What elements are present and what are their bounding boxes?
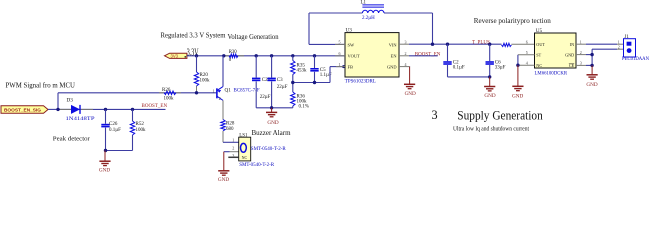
svg-text:SMT-0540-T-2-R: SMT-0540-T-2-R [251,147,287,152]
label C5 [320,68,326,73]
value 680 R28 [226,127,234,132]
title Regulated 3.3V System [161,30,226,39]
svg-text:6: 6 [339,51,341,56]
node junction C5 FB [313,81,316,84]
label R30 [229,50,238,55]
resistor R28 [221,120,225,143]
pin IN U5 [570,42,586,47]
wire C2 C6 bottom [448,76,490,78]
wire SW to inductor [309,13,362,44]
node junction CE gnd [590,64,593,67]
svg-text:PEC01DAAN: PEC01DAAN [622,57,650,62]
svg-text:GND: GND [387,65,397,70]
value 0.1uF C2 [453,65,465,70]
resistor R20 [194,56,198,93]
ground mid rail [266,108,279,126]
label L1 [361,1,367,6]
svg-text:R30: R30 [229,50,238,55]
pin number 3 U3 [405,40,407,45]
transistor Q1 [217,56,223,120]
resistor R30 [224,54,244,58]
svg-text:T_PLUS: T_PLUS [472,40,490,45]
label R26 [162,88,171,93]
svg-text:LS1: LS1 [239,133,248,138]
pin OUT U5 [536,42,545,47]
pin ST U5 [518,53,542,58]
wire base row [58,92,217,94]
pin number 2 U5 [580,50,582,55]
svg-text:ST: ST [536,53,541,58]
label R28 [226,121,235,126]
label C2 [453,60,459,65]
wire CE join [586,64,592,66]
wire gnd to J1 pin2 [592,48,625,50]
svg-text:EN: EN [391,54,398,59]
value 33uF C6 [495,65,506,70]
label R35 [297,63,306,68]
svg-text:BOOST_EN: BOOST_EN [142,104,168,109]
title Voltage Generation [228,32,279,41]
pin name NC LS1 [242,155,248,160]
wire U3 gnd drop [409,66,411,68]
svg-text:Buzzer Alarm: Buzzer Alarm [252,129,292,137]
pin number 1 LS1 [232,138,234,143]
node junction C25 top [255,54,258,57]
buzzer LS1 [228,137,250,161]
wire U5 out to J1 pin1 [586,43,624,45]
svg-text:1N4148TP: 1N4148TP [66,117,95,122]
svg-text:Q1: Q1 [225,88,232,94]
svg-text:GND: GND [267,120,278,126]
value 2.2uH L1 [362,16,375,21]
svg-text:2.2µH: 2.2µH [362,16,375,21]
svg-text:R20: R20 [200,73,209,78]
value 453k R35 [297,68,308,73]
node junction C6 bottom [488,75,491,78]
node junction base [195,91,198,94]
svg-text:Regulated 3.3 V System: Regulated 3.3 V System [161,30,226,39]
pin number 6 U5 [526,39,528,44]
resistor R36 [291,83,295,108]
svg-text:GND: GND [586,82,597,88]
svg-text:LM66100DCKR: LM66100DCKR [535,71,568,76]
pin number 4 U5 [526,60,528,65]
svg-text:0.1µF: 0.1µF [109,128,121,133]
svg-text:C3: C3 [277,78,283,83]
svg-text:3: 3 [232,153,234,158]
svg-text:1: 1 [232,138,234,143]
value SMT-0540-T-2-R right [251,147,287,152]
wire FB feedback [293,67,345,83]
svg-text:GND: GND [484,93,495,99]
svg-text:6: 6 [526,39,528,44]
pin VOUT U3 [335,54,360,59]
wire port to diode node [48,108,58,110]
pin number 4 U3 [405,62,407,67]
label C3 [277,78,283,83]
resistor R26 [159,91,181,95]
wire EN stub [409,55,438,57]
svg-text:Reverse polaritypro tection: Reverse polaritypro tection [474,17,551,25]
svg-text:NC: NC [536,63,542,68]
wire 3.3V rail [187,55,345,57]
value 100k R20 [200,78,211,83]
svg-text:OUT: OUT [536,42,545,47]
value 1N4148TP [66,117,95,122]
svg-text:GND: GND [512,94,523,100]
svg-text:3: 3 [580,61,582,66]
section number 3 [432,108,438,122]
svg-text:5: 5 [339,40,341,45]
node junction gnd mid [270,106,273,109]
svg-text:5: 5 [526,50,528,55]
svg-text:1: 1 [213,89,215,94]
title Reverse polarity protection [474,17,551,25]
label R36 [297,94,306,99]
pin EN U3 [391,54,409,59]
label LS1 [239,133,248,138]
svg-text:SMT-0540-T-2-R: SMT-0540-T-2-R [239,163,275,168]
node junction Q1 emitter rail [222,54,225,57]
node junction NC gnd [516,63,519,66]
label C6 [495,60,501,65]
svg-text:680: 680 [226,127,234,132]
svg-text:3: 3 [405,40,407,45]
pin number 3 LS1 [232,153,234,158]
svg-text:Supply Generation: Supply Generation [457,108,543,122]
node junction R35 top [291,54,294,57]
svg-text:IN: IN [570,42,574,47]
wire diode row [58,108,166,110]
svg-text:GND: GND [405,91,416,97]
node junction C5 top [313,54,316,57]
ground U5 left [512,65,524,99]
ground U3 [404,67,416,98]
node junction at riser [56,108,59,111]
resistor R52 [130,109,134,150]
pin CE U5 [569,63,586,68]
section title Supply Generation [457,108,543,122]
svg-text:VOUT: VOUT [348,54,361,59]
svg-text:33µF: 33µF [495,65,506,70]
wire U5 gnd net [586,49,592,65]
wire VIN to U5 [409,43,502,45]
svg-text:4: 4 [405,62,407,67]
svg-text:2: 2 [618,45,620,50]
wire inductor to VIN [384,13,433,44]
node junction R35 R36 FB [291,81,294,84]
pin GND U5 [565,53,586,58]
svg-text:22µF: 22µF [277,85,288,90]
value 100k R52 [136,128,147,133]
pin FB U3 [336,65,353,70]
wire buzzer pin2 to gnd [224,151,239,153]
svg-text:100k: 100k [200,78,211,83]
pin number 1 U5 [580,39,582,44]
svg-text:100k: 100k [164,96,175,101]
label C25 [262,78,271,83]
label D3 [67,98,74,104]
svg-text:U5: U5 [536,28,543,34]
diode D3 [60,105,93,114]
label R20 [200,73,209,78]
pin number 2 U3 [405,51,407,56]
capacitor C2 [443,44,451,77]
node junction FB pin [342,65,345,68]
label C26 [109,122,118,127]
svg-text:GND: GND [565,53,574,58]
ferrite bead on T_PLUS [502,43,535,46]
value 100k R26 [164,96,175,101]
value LM66100DCKR [535,71,568,76]
svg-text:4: 4 [526,60,528,65]
svg-text:D3: D3 [67,98,74,104]
pin number 5 U3 [339,40,341,45]
svg-text:FB: FB [348,65,353,70]
svg-text:U3: U3 [346,28,353,34]
svg-text:3V3: 3V3 [171,54,179,59]
label J1 [624,35,629,40]
net label BOOST_EN at EN [415,52,441,57]
value TPS61023DRL [345,80,376,85]
ground C2 C6 [484,77,496,99]
value 0.1 percent R36 [299,104,309,109]
node junction diode-C26 [104,108,107,111]
resistor R35 [291,56,295,83]
port BOOST_EN_SIG [1,106,48,114]
capacitor C25 [252,56,260,108]
node junction R20 top [195,54,198,57]
svg-text:22µF: 22µF [260,95,271,100]
connector J1 [624,39,636,57]
svg-text:BOOST_EN: BOOST_EN [415,52,441,57]
pin VIN U3 [389,42,409,47]
svg-text:Ultra low Iq and shutdown curr: Ultra low Iq and shutdown current [453,126,529,132]
net name 3.3V [187,48,199,59]
pin SW U3 [335,42,355,47]
label U5 [536,28,543,34]
node junction at C26 bottom [104,149,107,152]
svg-text:R52: R52 [136,122,145,127]
value 100k R36 [297,99,308,104]
svg-text:2: 2 [405,51,407,56]
wire R28 to buzzer [223,141,239,143]
pin NC U5 [518,63,542,68]
svg-text:3: 3 [432,108,438,122]
op-amp U3 body [345,33,399,77]
svg-text:2: 2 [580,50,582,55]
node junction diode-R52 [131,108,134,111]
wire bottom RC row [106,150,133,152]
svg-text:J1: J1 [624,35,629,40]
subtitle ultra low iq [453,126,529,132]
svg-text:2: 2 [219,96,221,101]
node junction C3 top [270,54,273,57]
wire ST NC gnd drop [517,55,519,65]
pin number 2 J1 [618,45,620,50]
svg-text:NC: NC [242,155,248,160]
label U3 [346,28,353,34]
value 0.1uF C26 [109,128,121,133]
svg-text:2: 2 [232,146,234,151]
svg-text:0.1%: 0.1% [299,104,309,109]
pin number 6 U3 [339,51,341,56]
svg-text:453k: 453k [297,68,308,73]
svg-text:BOOST_EN_SIG: BOOST_EN_SIG [4,108,42,113]
capacitor C26 [101,109,109,150]
value 22uF C3 [277,85,288,90]
ground U5 right [586,65,597,88]
text Peak detector [53,135,91,142]
ground buzzer [218,152,230,184]
svg-text:GND: GND [218,177,229,183]
svg-text:VIN: VIN [389,42,398,47]
svg-text:1: 1 [339,62,341,67]
svg-text:1: 1 [580,39,582,44]
value 0 R30 [229,58,232,63]
pin number 2 LS1 [232,146,234,151]
text PWM Signal from MCU [6,80,76,89]
value 22uF C25 [260,95,271,100]
capacitor C5 [310,56,318,83]
pin number 1 U3 [339,62,341,67]
value PEC01DAAN [622,57,650,62]
net label BOOST_EN [142,104,168,109]
inductor L1 [362,5,384,13]
node junction U5 gnd [590,53,593,56]
svg-text:0.1µF: 0.1µF [453,65,465,70]
svg-text:GND: GND [99,168,110,174]
wire vertical riser at node [57,93,59,110]
node junction L1 VIN [431,43,434,46]
pin number 1 Q1 [213,89,215,94]
capacitor C3 [267,56,275,108]
svg-text:Voltage Generation: Voltage Generation [228,32,279,41]
wire caps bottom row [256,107,293,109]
net label T_PLUS [472,40,490,45]
svg-text:C26: C26 [109,122,118,127]
value BC857C-7-F [234,89,260,94]
node junction C2 top [446,43,449,46]
op-amp U5 body [535,33,577,68]
svg-text:R28: R28 [226,121,235,126]
svg-text:L1: L1 [361,1,367,6]
text Buzzer Alarm [252,129,292,137]
svg-text:TPS61023DRL: TPS61023DRL [345,80,376,85]
svg-text:PWM Signal fro m MCU: PWM Signal fro m MCU [6,80,76,89]
node junction C6 top [488,43,491,46]
pin number 3 U5 [580,61,582,66]
value 1.1uF C5 [320,73,332,78]
pin number 1 J1 [618,39,620,44]
svg-text:100k: 100k [136,128,147,133]
svg-text:SW: SW [348,42,355,47]
value SMT-0540-T-2-R bottom [239,163,275,168]
power port 3V3 [165,53,187,58]
ground peak detector [99,151,111,174]
label Q1 [225,88,232,94]
label R52 [136,122,145,127]
svg-text:R26: R26 [162,88,171,93]
svg-text:Peak detector: Peak detector [53,135,91,142]
pin GND U3 [387,65,410,70]
pin number 2 Q1 [219,96,221,101]
pin number 5 U5 [526,50,528,55]
svg-text:CE: CE [569,63,575,68]
capacitor C6 [486,44,494,77]
